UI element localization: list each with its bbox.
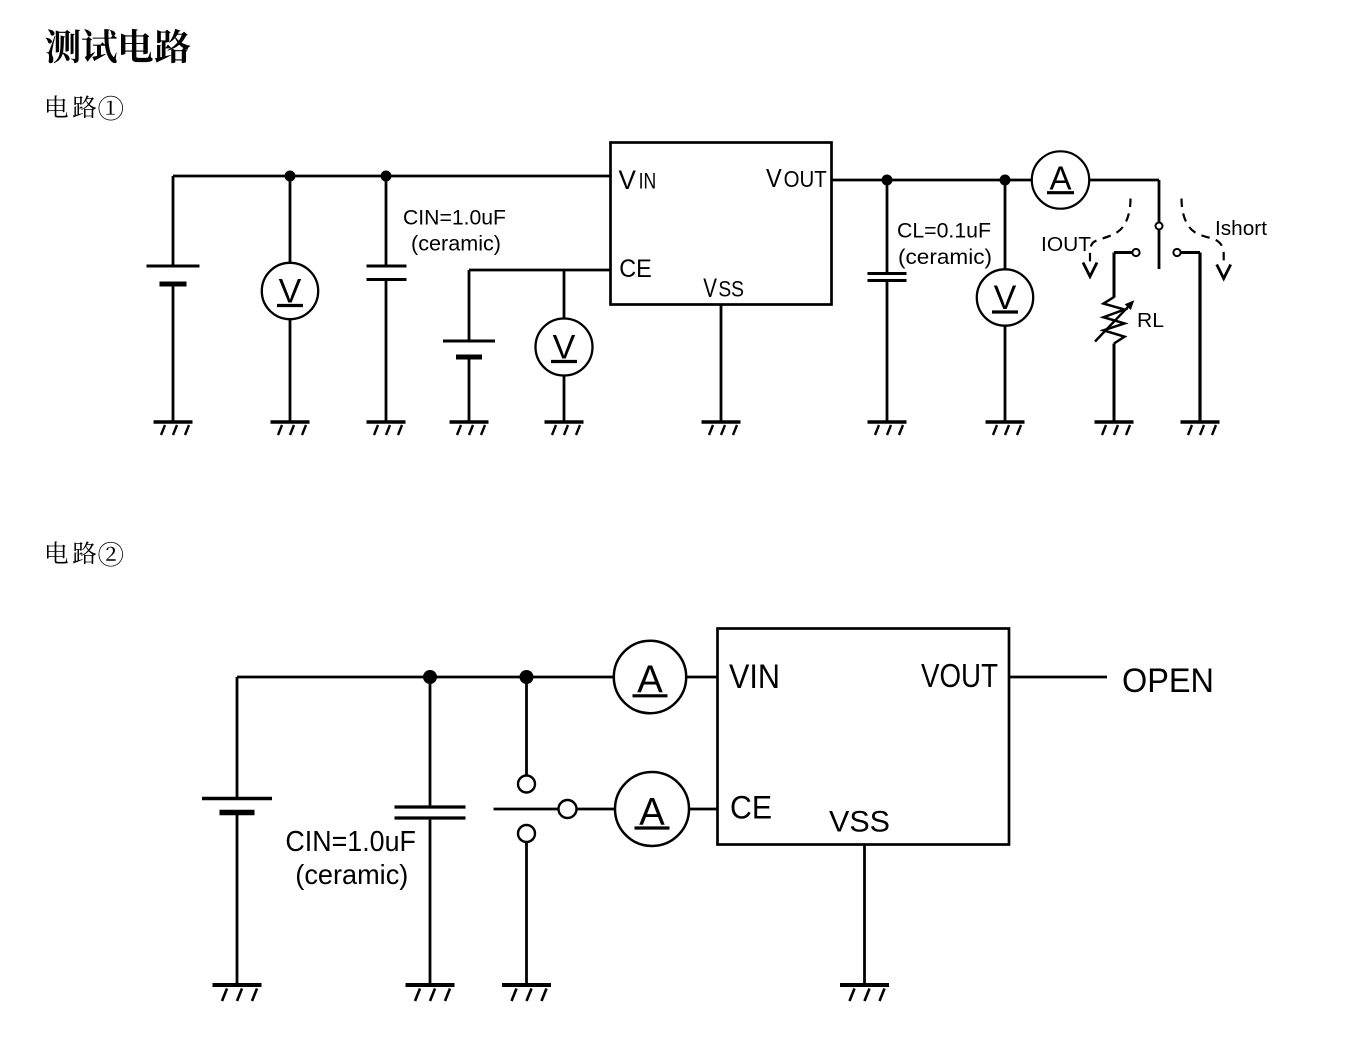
wire switch SW2 to ground (525, 842, 528, 985)
switch SW1 pole contact (1156, 223, 1163, 230)
wire voltmeter V2 bottom (563, 376, 566, 423)
resistor RL (variable) (1095, 297, 1134, 344)
svg-text:V: V (703, 273, 717, 303)
wire capacitor CL bottom (886, 282, 889, 422)
svg-text:Ishort: Ishort (1215, 218, 1267, 240)
dashed arrow IOUT switch throw (1090, 199, 1131, 265)
svg-text:SS: SS (718, 277, 744, 302)
switch SW1 right contact (Ishort) (1173, 249, 1180, 256)
switch SW2 pole contact (559, 800, 577, 818)
wire RL bottom (1113, 344, 1116, 423)
wire ammeter A1 to switch (1089, 179, 1159, 182)
wire VSS pin (720, 304, 723, 422)
ground voltmeter V2 (545, 422, 584, 435)
wire battery B3 bottom (236, 813, 239, 986)
IC U2 regulator (718, 629, 1010, 845)
wire ammeter A2 to VIN pin (686, 676, 719, 679)
ground VSS U2 (840, 985, 889, 1001)
junction node VOUT / voltmeter tap (1000, 175, 1011, 186)
ground switch SW2 (502, 985, 551, 1001)
wire battery1 bottom (172, 284, 175, 422)
wire switch blade (1158, 229, 1161, 269)
ground capacitor CIN2 (406, 985, 455, 1001)
svg-text:(ceramic): (ceramic) (295, 859, 408, 890)
svg-text:(ceramic): (ceramic) (898, 246, 992, 269)
ground capacitor CIN (367, 422, 406, 435)
ground VSS U1 (702, 422, 741, 435)
svg-text:CL=0.1uF: CL=0.1uF (897, 219, 991, 243)
switch SW2 upper contact (518, 776, 535, 793)
svg-text:RL: RL (1137, 310, 1164, 332)
wire switch SW2 blade (494, 808, 558, 811)
ammeter A3 (CE) (615, 772, 689, 846)
ground battery B1 (154, 422, 193, 435)
wire voltmeter V2 top (563, 270, 566, 318)
wire VIN rail circuit1 (173, 175, 610, 178)
ammeter A1 (IOUT) (1032, 151, 1089, 208)
junction node VOUT / CL tap (882, 175, 893, 186)
battery B3 (202, 799, 272, 813)
wire Ishort contact horizontal (1181, 251, 1200, 254)
voltmeter V3 (VOUT) (977, 269, 1033, 325)
capacitor CIN (367, 266, 407, 280)
wire Ishort to ground (1198, 253, 1201, 423)
dashed arrow Ishort switch throw (1182, 199, 1224, 267)
svg-text:(ceramic): (ceramic) (411, 233, 501, 256)
svg-text:VIN: VIN (729, 658, 780, 696)
ground voltmeter V1 (271, 422, 310, 435)
wire capacitor CL top (886, 180, 889, 272)
battery B1 (147, 266, 200, 284)
voltmeter V2 (CE) (536, 319, 593, 376)
wire capacitor CIN2 bottom (429, 820, 432, 985)
junction node VIN / voltmeter tap (285, 171, 296, 182)
ground Ishort (1181, 422, 1220, 435)
wire ammeter A3 to CE pin (689, 808, 719, 811)
junction node VIN2 / switch tap (520, 670, 534, 684)
svg-text:CE: CE (619, 255, 652, 283)
svg-text:V: V (619, 165, 637, 195)
wire CE battery top (468, 270, 471, 341)
svg-text:V: V (766, 163, 782, 193)
ground resistor RL (1095, 422, 1134, 435)
wire capacitor CIN bottom (385, 281, 388, 422)
svg-text:IOUT: IOUT (1041, 234, 1091, 256)
title 测试电路 (46, 29, 191, 63)
wire CE battery bottom (468, 357, 471, 422)
wire CE net horizontal (469, 269, 610, 272)
ground battery B2 (450, 422, 489, 435)
svg-text:IN: IN (639, 169, 657, 194)
IC U1 regulator (611, 143, 832, 305)
wire switch pole drop (1158, 180, 1161, 223)
switch SW1 left contact (IOUT) (1132, 249, 1139, 256)
wire VIN rail circuit2 (237, 676, 614, 679)
capacitor CIN2 (395, 807, 466, 818)
wire battery1 top (172, 176, 175, 266)
svg-text:A: A (1049, 160, 1071, 197)
svg-text:OPEN: OPEN (1122, 662, 1214, 700)
wire voltmeter V3 bottom (1004, 326, 1007, 422)
wire VSS2 pin (863, 845, 866, 986)
svg-text:CE: CE (730, 790, 772, 826)
wire VOUT rail left (832, 179, 1032, 182)
junction node VIN / CIN tap (381, 171, 392, 182)
svg-text:OUT: OUT (784, 166, 827, 192)
wire voltmeter V1 top (289, 176, 292, 263)
ground battery B3 (213, 985, 262, 1001)
wire battery B3 top (236, 677, 239, 799)
switch SW2 lower contact (518, 825, 535, 842)
wire pole to ammeter A3 (577, 808, 617, 811)
ground capacitor CL (868, 422, 907, 435)
ground voltmeter V3 (986, 422, 1025, 435)
wire capacitor CIN top (385, 176, 388, 265)
svg-text:VOUT: VOUT (921, 657, 998, 694)
wire IOUT contact horizontal (1114, 251, 1132, 254)
capacitor CL (868, 274, 907, 281)
wire voltmeter V1 bottom (289, 319, 292, 422)
wire voltmeter V3 top (1004, 180, 1007, 269)
battery B2 (CE) (443, 341, 495, 357)
svg-text:CIN=1.0uF: CIN=1.0uF (403, 206, 506, 230)
wire VOUT to OPEN (1009, 676, 1107, 679)
voltmeter V1 (VIN) (262, 263, 318, 319)
svg-text:VSS: VSS (829, 806, 890, 839)
svg-text:CIN=1.0uF: CIN=1.0uF (285, 826, 416, 858)
wire switch SW2 upper (525, 677, 528, 775)
wire to resistor RL (1113, 253, 1116, 298)
ammeter A2 (VIN) (614, 641, 686, 713)
label 电路② (47, 541, 123, 566)
junction node VIN2 / CIN tap (423, 670, 437, 684)
wire capacitor CIN2 top (429, 677, 432, 805)
label 电路① (47, 95, 123, 120)
